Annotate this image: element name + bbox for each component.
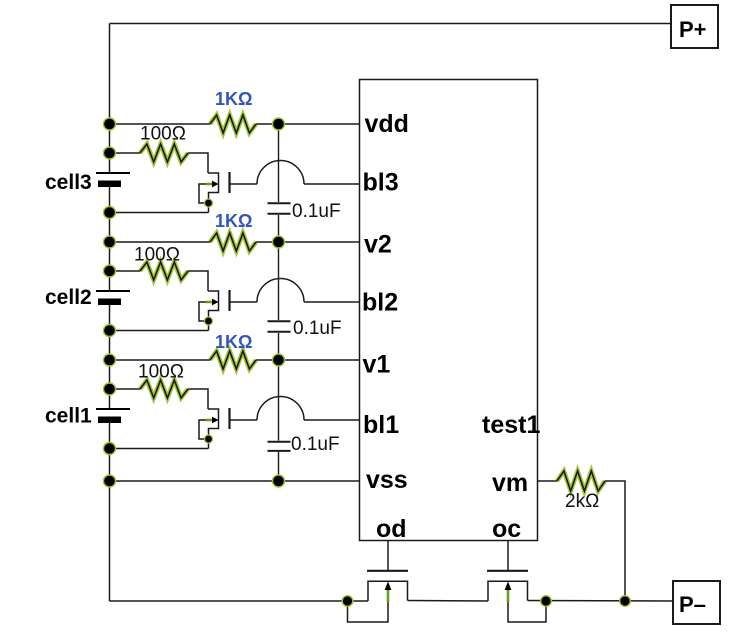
resistor 1KΩ (v1) — [210, 351, 256, 369]
svg-text:vm: vm — [492, 469, 528, 497]
wire v2 row — [110, 241, 360, 243]
svg-text:bl3: bl3 — [363, 169, 399, 197]
wire bottom rail right segment to P- — [528, 600, 674, 603]
wire cell3 bottom — [110, 212, 209, 214]
wire hump bl1 crossover — [257, 396, 304, 420]
wire vdd row — [110, 123, 360, 125]
capacitor 0.1uF (cell2) — [268, 242, 291, 360]
transistor Q1 (cell1 balance FET) — [199, 408, 257, 449]
capacitor 0.1uF (cell1) — [268, 360, 291, 481]
node 100-1-rail — [104, 383, 116, 395]
wire bl3 to box — [304, 183, 360, 185]
svg-text:100Ω: 100Ω — [138, 362, 184, 383]
node v2-cap — [273, 236, 285, 248]
resistor 100Ω (cell3) — [140, 144, 188, 162]
node vdd-cap — [273, 118, 285, 130]
resistor 1KΩ (v2) — [210, 233, 256, 251]
terminal P- box — [673, 581, 720, 624]
node cell1-bottom-rail — [104, 443, 116, 455]
wire cell1 bottom — [110, 448, 209, 450]
svg-text:od: od — [376, 515, 407, 543]
node v1-cap — [273, 354, 285, 366]
wire left rail segment 1 — [109, 24, 111, 174]
svg-text:P+: P+ — [679, 17, 707, 42]
node vss-cap — [273, 475, 285, 487]
resistor 100Ω (cell1) — [140, 380, 188, 398]
battery cell1 — [96, 409, 130, 423]
wire top rail from left rail to P+ — [110, 23, 672, 25]
node v2-rail — [104, 236, 116, 248]
svg-text:cell1: cell1 — [45, 405, 92, 428]
battery cell2 — [96, 291, 130, 305]
node oc bulk — [541, 596, 552, 607]
svg-text:bl1: bl1 — [363, 411, 399, 439]
node Q1 source — [205, 435, 213, 443]
node vss-rail — [104, 475, 116, 487]
svg-text:0.1uF: 0.1uF — [292, 201, 341, 222]
svg-text:100Ω: 100Ω — [134, 245, 180, 266]
node 100-3-rail — [104, 147, 116, 159]
transistor oc (charge FET) — [487, 541, 546, 623]
wire hump bl3 crossover — [257, 160, 304, 184]
wire left rail segment 3 — [109, 305, 111, 409]
capacitor 0.1uF (cell3) — [268, 124, 291, 242]
transistor Q3 (cell3 balance FET) — [199, 172, 257, 213]
svg-text:oc: oc — [492, 515, 521, 543]
transistor Q2 (cell2 balance FET) — [199, 290, 257, 331]
svg-text:bl2: bl2 — [362, 289, 398, 317]
svg-text:vdd: vdd — [365, 110, 409, 138]
svg-text:test1: test1 — [482, 411, 540, 439]
svg-text:v1: v1 — [363, 351, 391, 379]
resistor 2kΩ — [538, 480, 558, 482]
svg-text:cell2: cell2 — [45, 286, 92, 309]
svg-text:vss: vss — [366, 466, 408, 494]
svg-text:2kΩ: 2kΩ — [565, 491, 599, 512]
wire 100Ω row cell2 — [110, 271, 209, 291]
node vdd-rail — [104, 118, 116, 130]
node vm-bottom — [620, 596, 631, 607]
wire hump bl2 crossover — [257, 279, 304, 303]
svg-text:P–: P– — [679, 592, 706, 617]
battery cell3 — [96, 173, 130, 187]
wire vss row — [110, 480, 360, 482]
resistor 100Ω (cell2) — [140, 262, 188, 280]
wire bl2 to box — [304, 301, 360, 303]
node cell2-bottom-rail — [104, 325, 116, 337]
node od bulk — [342, 596, 353, 607]
svg-text:1KΩ: 1KΩ — [215, 89, 252, 109]
wire 100Ω row cell3 — [110, 153, 209, 173]
svg-text:0.1uF: 0.1uF — [293, 318, 342, 339]
node Q3 source — [205, 199, 213, 207]
wire bottom rail middle segment — [408, 600, 489, 603]
wire left rail segment 4 — [109, 423, 111, 601]
svg-text:0.1uF: 0.1uF — [291, 434, 340, 455]
wire left rail segment 2 — [109, 187, 111, 291]
wire bottom rail left segment — [110, 600, 369, 602]
svg-text:v2: v2 — [364, 231, 392, 259]
wire cell2 bottom — [110, 330, 209, 332]
svg-text:1KΩ: 1KΩ — [215, 332, 252, 352]
wire 100Ω row cell1 — [110, 389, 209, 409]
svg-text:1KΩ: 1KΩ — [215, 211, 252, 231]
transistor od (discharge FET) — [348, 541, 409, 623]
terminal P+ box — [671, 5, 718, 48]
svg-text:cell3: cell3 — [45, 171, 92, 194]
node Q2 source — [205, 317, 213, 325]
wire bl1 to box — [304, 419, 360, 421]
IC U1 box — [360, 80, 538, 541]
node cell3-bottom-rail — [104, 207, 116, 219]
wire v1 row — [110, 359, 360, 361]
svg-text:100Ω: 100Ω — [140, 124, 186, 145]
node v1-rail — [104, 354, 116, 366]
wire vm to bottom node — [605, 481, 625, 601]
node 100-2-rail — [104, 265, 116, 277]
resistor 1KΩ (vdd) — [210, 115, 256, 133]
